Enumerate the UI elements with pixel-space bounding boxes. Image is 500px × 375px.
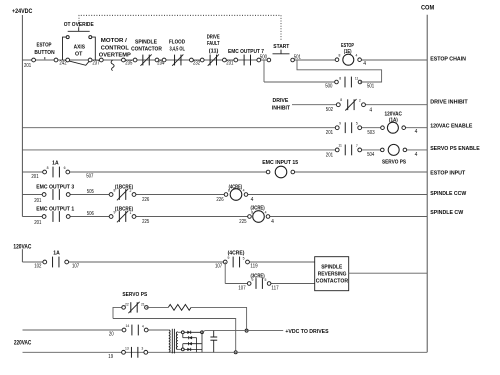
svg-text:220VAC: 220VAC — [14, 341, 32, 347]
node 4 (rung2) — [369, 108, 372, 114]
net label ESTOP CHAIN — [430, 57, 466, 63]
svg-text:501: 501 — [367, 83, 374, 89]
svg-text:CONTACTOR: CONTACTOR — [131, 46, 162, 52]
svg-text:8: 8 — [339, 76, 341, 80]
svg-text:506: 506 — [87, 211, 94, 217]
svg-text:SERVO PS: SERVO PS — [122, 292, 147, 298]
+24VDC left power rail — [21, 15, 23, 217]
svg-text:EMC OUTPUT 7: EMC OUTPUT 7 — [228, 49, 264, 55]
svg-text:DRIVE: DRIVE — [207, 34, 220, 40]
svg-text:21: 21 — [141, 303, 145, 307]
NC contact 1BCRE (pins 8-2) — [109, 185, 136, 201]
svg-text:6: 6 — [64, 166, 66, 170]
svg-text:ESTOP: ESTOP — [37, 42, 52, 48]
NO contact 4CRE (pins 9-5) — [223, 250, 249, 267]
NO contact 3CRE (pins 9-5) — [247, 274, 271, 289]
node 4 (rung7) — [271, 219, 274, 225]
svg-text:4: 4 — [415, 129, 418, 135]
node 226 right — [216, 197, 223, 203]
NO contact EMC OUTPUT 1 — [36, 207, 74, 222]
node 117 — [271, 285, 278, 291]
NO contact 1E seal-in (pins 8-11) — [325, 76, 374, 89]
node 237 — [92, 61, 99, 67]
NC contact 1E (pins 8-2) drive inhibit — [336, 98, 365, 110]
net label DRIVE INHIBIT — [430, 100, 468, 106]
power label +24VDC — [12, 9, 33, 15]
svg-text:201: 201 — [326, 152, 333, 158]
NO contact 1A (pins 8-6) — [43, 160, 70, 177]
svg-text:8: 8 — [339, 53, 341, 57]
wire rung4 — [22, 149, 427, 151]
node 231 — [226, 61, 233, 67]
wire DC- drop (D2) — [196, 338, 198, 353]
net label SPINDLE CW — [430, 210, 463, 216]
wire 220VAC phase B / DC- bottom line — [23, 351, 428, 353]
svg-text:226: 226 — [216, 197, 223, 203]
wire AC2 riser — [182, 344, 184, 348]
node 226 left — [142, 197, 149, 203]
wire DC+ right vertical — [201, 332, 203, 352]
wire servo loop lower — [113, 319, 236, 353]
svg-text:SPINDLE: SPINDLE — [321, 264, 342, 270]
bypass leg right (OT OVERIDE) — [92, 37, 95, 60]
svg-text:9: 9 — [113, 211, 115, 215]
svg-text:231: 231 — [226, 61, 233, 67]
svg-text:120VAC: 120VAC — [13, 245, 32, 251]
node 107 at 4CRE contact — [215, 264, 222, 270]
node AC1 — [181, 331, 184, 334]
wire bridge row1 — [184, 331, 202, 333]
svg-text:120VAC: 120VAC — [384, 111, 402, 117]
bypass leg left (OT OVERIDE) — [63, 37, 67, 60]
svg-text:119: 119 — [250, 264, 257, 270]
svg-text:19: 19 — [108, 354, 113, 360]
wire AC1 drop — [182, 334, 184, 338]
svg-text:1: 1 — [129, 211, 131, 215]
relay coil 3CRE — [248, 205, 270, 222]
svg-text:201: 201 — [24, 63, 31, 69]
node 242 — [59, 61, 66, 67]
net label ESTOP INPUT — [430, 170, 465, 176]
NC contact FLOOD 3,4,5 OL — [162, 39, 193, 65]
svg-text:3: 3 — [141, 347, 143, 351]
wire bridge row2 — [183, 337, 197, 339]
node 232 — [193, 61, 200, 67]
node 500 (rung1) — [260, 55, 267, 61]
wire branch to 3CRE contact — [225, 283, 249, 285]
junction node on DC- line — [234, 351, 237, 354]
svg-text:OT: OT — [75, 52, 83, 58]
node 107 at 3CRE contact — [238, 285, 245, 291]
node 4 (rung6) — [251, 197, 254, 203]
svg-text:4: 4 — [355, 54, 357, 58]
node 201 (rung1) — [24, 58, 36, 69]
NO contact servo contactor (pins 14-4) — [122, 324, 148, 335]
svg-text:4: 4 — [271, 219, 274, 225]
wire bridge row4 — [184, 348, 202, 350]
wire rung1 rail to START gap — [22, 59, 269, 61]
node 225 right — [239, 219, 246, 225]
node 102 — [34, 264, 41, 270]
svg-text:201: 201 — [31, 174, 38, 180]
wire +VDC line — [202, 331, 283, 333]
wire rung7 — [22, 216, 427, 218]
wire bridge row3 — [183, 343, 202, 345]
resistor (bleed) — [168, 305, 191, 311]
relay coil 120VAC (1A) — [381, 111, 406, 133]
svg-text:1A: 1A — [52, 160, 59, 166]
junction node on +VDC line — [245, 329, 248, 332]
power label 220VAC — [14, 341, 32, 347]
pushbutton ESTOP BUTTON — [34, 42, 57, 61]
svg-text:(4CRE): (4CRE) — [229, 185, 243, 191]
NO contact EMC OUTPUT 3 — [36, 185, 74, 200]
box SPINDLE REVERSING CONTACTOR — [315, 257, 349, 291]
svg-text:(11): (11) — [209, 48, 219, 54]
wire rung1 501 to coil — [293, 59, 337, 61]
wire rung8 — [22, 261, 314, 263]
svg-text:(1A): (1A) — [389, 118, 398, 124]
relay coil SERVO PS — [381, 144, 407, 165]
svg-text:4: 4 — [251, 197, 254, 203]
node 505 — [87, 189, 94, 195]
net label SERVO PS ENABLE — [430, 146, 480, 152]
wire branch drop to 3CRE contact — [224, 262, 226, 284]
wire rung1 coil to COM rail — [360, 59, 428, 61]
svg-text:4: 4 — [363, 61, 366, 67]
svg-text:500: 500 — [325, 83, 332, 89]
svg-text:FAULT: FAULT — [207, 41, 220, 47]
net label 120VAC ENABLE — [430, 123, 472, 129]
svg-text:9: 9 — [339, 121, 341, 125]
svg-text:201: 201 — [326, 130, 333, 136]
svg-text:OVERTEMP: OVERTEMP — [99, 53, 131, 59]
thermal overload MOTOR/CONTROL OVERTEMP — [99, 38, 131, 70]
svg-text:5: 5 — [356, 122, 358, 126]
NC contact SPINDLE CONTACTOR — [131, 39, 162, 65]
svg-text:235: 235 — [125, 61, 132, 67]
diode D2 — [189, 336, 192, 339]
node 504 — [367, 152, 374, 158]
NO contact 1E (pins 9-5) — [335, 121, 361, 133]
svg-text:107: 107 — [215, 264, 222, 270]
wire resistor to +VDC node — [191, 307, 247, 330]
svg-text:8: 8 — [340, 98, 342, 102]
svg-text:4: 4 — [243, 189, 245, 193]
transformer T1 secondary winding — [176, 332, 177, 350]
wire 220VAC phase A — [23, 329, 169, 331]
svg-text:13: 13 — [125, 347, 129, 351]
NC contact SERVO PS (pins 22-21) — [122, 302, 148, 313]
svg-text:INHIBIT: INHIBIT — [272, 105, 291, 111]
svg-text:9: 9 — [251, 278, 253, 282]
svg-text:11: 11 — [355, 77, 359, 81]
net label +VDC TO DRIVES — [285, 329, 328, 335]
net label SPINDLE CCW — [430, 191, 466, 197]
svg-text:502: 502 — [326, 107, 333, 113]
svg-text:START: START — [273, 44, 290, 50]
node 19 — [108, 354, 113, 360]
node 235 — [125, 61, 132, 67]
power label COM — [421, 6, 434, 12]
node 201 (rung3) — [326, 130, 333, 136]
svg-text:2: 2 — [359, 98, 361, 102]
diode D3 — [189, 342, 192, 345]
svg-text:7: 7 — [356, 144, 358, 148]
node 201 (rung4) — [326, 152, 333, 158]
svg-text:CONTACTOR: CONTACTOR — [316, 279, 348, 285]
svg-text:503: 503 — [367, 130, 374, 136]
node 506 — [87, 211, 94, 217]
svg-text:SPINDLE CCW: SPINDLE CCW — [430, 191, 466, 197]
pushbutton START — [267, 44, 294, 62]
node 107 (rung8) — [72, 264, 79, 270]
svg-text:ESTOP CHAIN: ESTOP CHAIN — [430, 57, 466, 63]
node AC2 — [181, 348, 184, 351]
wire rung2 — [292, 104, 427, 106]
fuse 1A — [43, 251, 69, 268]
node DC+ — [201, 331, 204, 334]
svg-text:MOTOR /: MOTOR / — [101, 38, 127, 44]
capacitor C1 — [210, 331, 217, 353]
svg-text:SERVO PS: SERVO PS — [382, 160, 406, 166]
pushbutton OT OVERIDE (normally open bypass) — [64, 22, 94, 38]
wire box output to COM rail — [349, 272, 428, 274]
svg-text:SPINDLE CW: SPINDLE CW — [430, 210, 463, 216]
svg-text:4: 4 — [265, 211, 267, 215]
NO contact EMC OUTPUT 7 — [228, 49, 264, 65]
svg-text:201: 201 — [34, 198, 41, 204]
node 4 (rung3) — [415, 129, 418, 135]
svg-text:FLOOD: FLOOD — [169, 39, 185, 45]
node 119 — [250, 264, 257, 270]
COM right power rail — [426, 15, 428, 353]
node 201 (rung7) — [34, 220, 41, 226]
svg-text:225: 225 — [239, 219, 246, 225]
svg-text:107: 107 — [72, 264, 79, 270]
output coil EMC INPUT 15 — [262, 160, 298, 178]
svg-text:232: 232 — [193, 61, 200, 67]
node 20 — [109, 332, 114, 338]
svg-text:DRIVE INHIBIT: DRIVE INHIBIT — [430, 100, 468, 106]
svg-text:SPINDLE: SPINDLE — [135, 39, 157, 45]
svg-text:8: 8 — [251, 210, 253, 214]
NC contact 1BCRE (pins 9-1) — [109, 207, 136, 223]
svg-text:107: 107 — [238, 285, 245, 291]
NC contact DRIVE FAULT (11) — [200, 34, 226, 65]
svg-text:501: 501 — [294, 55, 301, 61]
knife switch AXIS OT — [66, 44, 92, 65]
svg-text:226: 226 — [142, 197, 149, 203]
relay coil 4CRE — [224, 185, 248, 201]
svg-text:EMC OUTPUT 1: EMC OUTPUT 1 — [36, 207, 74, 213]
svg-text:117: 117 — [271, 285, 278, 291]
svg-text:5: 5 — [243, 256, 245, 260]
NO contact 1E (pins 11-7) — [335, 144, 361, 156]
svg-text:EMC INPUT 15: EMC INPUT 15 — [262, 160, 298, 166]
svg-text:237: 237 — [92, 61, 99, 67]
svg-text:4: 4 — [369, 108, 372, 114]
wire secondary top to AC1 — [178, 331, 183, 333]
svg-text:SERVO PS ENABLE: SERVO PS ENABLE — [430, 146, 480, 152]
svg-text:(1E): (1E) — [344, 49, 352, 55]
svg-text:1A: 1A — [53, 251, 60, 257]
power label 120VAC — [13, 245, 32, 251]
svg-text:225: 225 — [142, 219, 149, 225]
svg-text:EMC OUTPUT 3: EMC OUTPUT 3 — [36, 185, 74, 191]
svg-text:20: 20 — [109, 332, 114, 338]
signal source label DRIVE INHIBIT — [272, 98, 291, 111]
svg-text:4: 4 — [142, 324, 144, 328]
svg-text:COM: COM — [421, 6, 434, 12]
svg-text:DRIVE: DRIVE — [273, 98, 289, 104]
node 503 — [367, 130, 374, 136]
svg-text:120VAC ENABLE: 120VAC ENABLE — [430, 123, 472, 129]
wire branch to box — [269, 283, 315, 285]
svg-text:504: 504 — [367, 152, 374, 158]
svg-text:9: 9 — [227, 256, 229, 260]
120VAC supply rail stub — [21, 249, 23, 262]
wire secondary bottom to AC2 — [178, 348, 183, 350]
node 201 (rung5) — [31, 174, 38, 180]
wire seal-in drop from node 500 — [263, 60, 265, 82]
svg-text:8: 8 — [228, 188, 230, 192]
svg-text:8: 8 — [47, 166, 49, 170]
dotted mechanical link OT OVERIDE to START — [79, 15, 281, 40]
svg-text:+24VDC: +24VDC — [12, 9, 33, 15]
node 501 (rung1) — [294, 55, 301, 61]
node 234 — [157, 61, 164, 67]
svg-text:5: 5 — [264, 278, 266, 282]
svg-text:22: 22 — [125, 302, 129, 306]
wire seal-in bottom — [264, 81, 337, 83]
wire servo loop left corner — [113, 307, 124, 318]
node 502 — [326, 107, 333, 113]
transformer T1 primary winding — [169, 330, 170, 352]
transformer T1 core — [172, 329, 174, 354]
svg-text:4: 4 — [415, 152, 418, 158]
NO contact servo contactor (pins 13-3) — [122, 347, 148, 358]
svg-text:2: 2 — [129, 189, 131, 193]
svg-text:8: 8 — [113, 189, 115, 193]
svg-text:BUTTON: BUTTON — [34, 50, 54, 56]
wire seal-in right riser — [297, 60, 382, 82]
label SERVO PS (bleed contact) — [122, 292, 147, 298]
svg-text:14: 14 — [126, 324, 130, 328]
svg-text:REVERSING: REVERSING — [318, 272, 347, 278]
svg-text:505: 505 — [87, 189, 94, 195]
node 225 left — [142, 219, 149, 225]
svg-text:507: 507 — [86, 174, 93, 180]
svg-text:242: 242 — [59, 61, 66, 67]
wire contact to resistor — [146, 306, 168, 308]
node 507 — [86, 174, 93, 180]
svg-text:102: 102 — [34, 264, 41, 270]
wire rung6 — [22, 194, 427, 196]
svg-text:ESTOP INPUT: ESTOP INPUT — [430, 170, 465, 176]
svg-text:CONTROL: CONTROL — [101, 45, 130, 51]
wire rung5 — [22, 171, 427, 173]
svg-text:AXIS: AXIS — [74, 44, 86, 50]
node 4 (rung4) — [415, 152, 418, 158]
diode D4 — [187, 348, 190, 351]
svg-text:201: 201 — [34, 220, 41, 226]
diode D1 — [187, 331, 190, 334]
svg-text:+VDC TO DRIVES: +VDC TO DRIVES — [285, 329, 328, 335]
svg-text:3,4,5 OL: 3,4,5 OL — [170, 46, 186, 52]
svg-text:11: 11 — [338, 144, 342, 148]
svg-text:500: 500 — [260, 55, 267, 61]
node 201 (rung6) — [34, 198, 41, 204]
relay coil ESTOP (1E) — [335, 43, 366, 67]
wire rung3 — [22, 127, 427, 129]
